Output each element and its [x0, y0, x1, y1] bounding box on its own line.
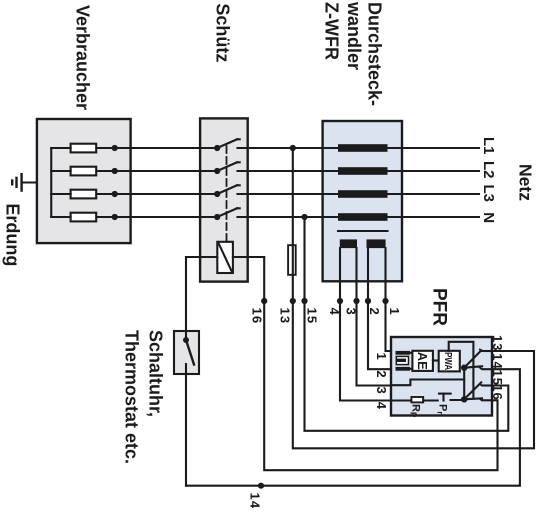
junction dot load L2 — [112, 168, 118, 174]
wire L1 lower segment — [95, 147, 217, 149]
pushbutton Pr — [439, 394, 451, 401]
svg-text:Erdung: Erdung — [3, 203, 23, 266]
svg-text:Schaltuhr,: Schaltuhr, — [146, 330, 166, 417]
transformer primary bar on N — [338, 213, 388, 221]
svg-text:Z-WFR: Z-WFR — [322, 2, 342, 60]
svg-text:15: 15 — [305, 308, 320, 325]
wire resistor stubs to bus — [51, 148, 70, 217]
contactor contact on N — [217, 208, 240, 217]
junction dot wire 16 — [261, 298, 267, 304]
wire coil bottom to Schaltuhr circuit — [186, 256, 217, 258]
contactor contact on L2 — [217, 162, 240, 171]
svg-text:3: 3 — [344, 308, 359, 316]
block AE — [412, 351, 433, 371]
wire 15 run from N to PFR — [305, 217, 509, 431]
svg-text:16: 16 — [490, 384, 505, 400]
svg-text:Netz: Netz — [516, 164, 536, 201]
resistor Rp — [411, 397, 423, 402]
junction dot A — [461, 396, 467, 402]
PFR contact 15 — [464, 382, 492, 399]
svg-text:4: 4 — [327, 308, 342, 316]
transformer secondary bar lower — [340, 239, 357, 248]
contactor contact on L1 — [217, 139, 240, 148]
junction dot load L3 — [112, 191, 118, 197]
contactor box Schuetz — [200, 118, 248, 281]
wire secondary 1 to PFR terminal 1 — [386, 248, 392, 351]
wire L3 lower segment — [95, 193, 217, 195]
load resistor R2 — [71, 167, 97, 176]
junction dot wire 14 — [258, 483, 264, 489]
transformer secondary bar upper — [367, 239, 386, 248]
svg-text:Thermostat etc.: Thermostat etc. — [122, 330, 142, 464]
svg-text:L3: L3 — [480, 185, 497, 203]
svg-text:13: 13 — [278, 308, 293, 325]
PFR contact 13 — [464, 349, 492, 368]
transformer primary bar on L3 — [338, 190, 388, 198]
wire L2 upper segment — [238, 170, 480, 172]
wire coil top to terminal 16 — [233, 256, 264, 258]
transformer primary bar on L2 — [338, 167, 388, 175]
wire Rp to Pr — [423, 399, 438, 401]
junction dot wire 3 — [353, 298, 359, 304]
wire neutral bus — [50, 148, 52, 217]
wire terminal 4 riser lower — [391, 399, 412, 401]
svg-text:Durchsteck-: Durchsteck- — [365, 2, 385, 106]
junction dot wire 13 — [290, 298, 296, 304]
svg-text:4: 4 — [374, 402, 389, 410]
load resistor R3 — [71, 190, 97, 199]
svg-text:Verbraucher: Verbraucher — [73, 5, 93, 110]
wire terminal 3 riser — [391, 380, 464, 386]
svg-text:1: 1 — [387, 308, 402, 316]
wire AE to PWA — [433, 359, 439, 361]
switch S1 Schaltuhr contact — [186, 340, 194, 365]
junction dot wire15 tap on N — [301, 214, 307, 220]
transformer box Durchsteckwandler Z-WFR — [323, 121, 402, 281]
svg-text:PFR: PFR — [429, 288, 450, 326]
load resistor R1 — [71, 144, 97, 153]
svg-text:14: 14 — [248, 493, 263, 510]
wire secondary 3 to PFR terminal 3 — [357, 248, 392, 385]
wire Schaltuhr return run — [185, 257, 187, 340]
wire PWA linkage to contacts — [449, 342, 474, 399]
wire clamp to AE — [410, 353, 412, 369]
contactor contact on L3 — [217, 185, 240, 194]
wire L2 lower segment — [95, 170, 217, 172]
svg-text:PWA: PWA — [442, 352, 454, 370]
svg-text:L1: L1 — [480, 137, 497, 155]
svg-text:AE: AE — [415, 352, 430, 370]
wire L1 upper segment — [238, 147, 480, 149]
transformer primary bar on L1 — [338, 144, 388, 152]
junction dot wire 15 — [301, 298, 307, 304]
wire L3 upper segment — [238, 193, 480, 195]
transformer core separator line — [338, 230, 388, 232]
PFR box — [391, 337, 492, 416]
svg-text:2: 2 — [367, 308, 382, 316]
ground symbol — [12, 174, 21, 191]
block PWA — [439, 351, 460, 372]
wire 14 run from PFR to Schaltuhr circuit — [186, 369, 520, 486]
PFR input clamp terminal — [396, 351, 411, 371]
PFR contact 16 — [464, 398, 492, 400]
wire N upper segment — [238, 216, 480, 218]
wire contact common bus — [463, 368, 465, 400]
load resistor R4 — [71, 213, 97, 222]
junction dot load N — [112, 214, 118, 220]
contactor coil K1 — [217, 242, 233, 273]
wire N lower segment — [95, 216, 217, 218]
junction dot wire13 tap on L1 — [290, 145, 296, 151]
wire secondary 2 to PFR terminal 2 — [368, 248, 391, 369]
junction dot wire 4 — [337, 298, 343, 304]
wire 16 run to PFR — [264, 257, 497, 470]
svg-text:16: 16 — [250, 308, 265, 325]
wire Pr to common dot A — [451, 398, 463, 401]
svg-text:N: N — [480, 212, 497, 223]
wire secondary 4 to PFR terminal 4 — [340, 248, 391, 400]
svg-text:wandler: wandler — [344, 1, 364, 70]
PFR contact 14 — [464, 366, 492, 369]
junction dot load L1 — [112, 145, 118, 151]
svg-text:13: 13 — [490, 335, 505, 351]
switch box Schaltuhr — [174, 331, 199, 374]
junction dot B — [461, 365, 467, 371]
wire 13 run from L1 to PFR — [293, 148, 534, 448]
fuse F1 on wire 13 — [288, 245, 296, 275]
svg-text:3: 3 — [374, 387, 389, 394]
junction dot wire 1 — [382, 298, 388, 304]
svg-text:2: 2 — [374, 370, 389, 377]
consumer box Verbraucher — [37, 119, 131, 243]
svg-text:Schütz: Schütz — [213, 3, 233, 62]
wire to ground — [23, 181, 37, 183]
junction dot wire 2 — [365, 298, 371, 304]
svg-text:14: 14 — [490, 353, 505, 369]
svg-text:1: 1 — [374, 353, 389, 360]
svg-text:L2: L2 — [480, 161, 497, 179]
contactor linkage dashed line — [226, 146, 228, 242]
